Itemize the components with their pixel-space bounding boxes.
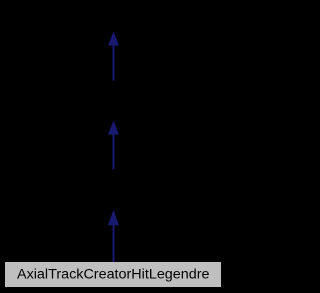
inheritance graph (Doxygen dark theme) (0, 0, 227, 293)
arrow 2 (middle inheritance arrow) (108, 121, 119, 170)
svg-text:AxialTrackCreatorHitLegendre: AxialTrackCreatorHitLegendre (17, 267, 210, 282)
arrow 3 (bottom inheritance arrow) (108, 210, 119, 263)
class box AxialTrackCreatorHitLegendre (6, 263, 221, 287)
arrow 1 (top inheritance arrow) (108, 32, 119, 81)
